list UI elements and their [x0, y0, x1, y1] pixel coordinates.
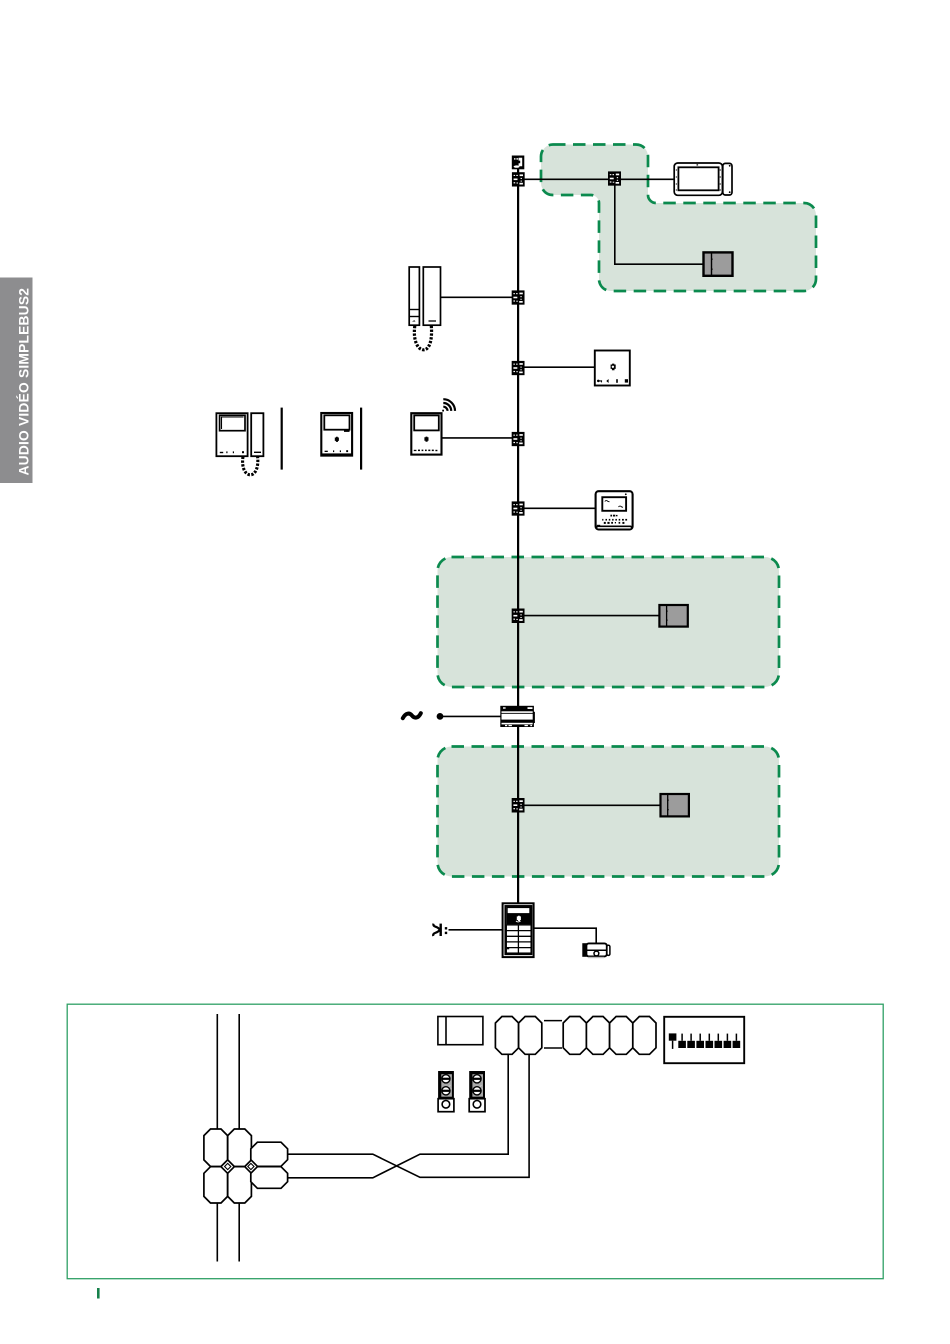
wire handset phone branch	[440, 296, 512, 298]
terminal strip break marks	[544, 1020, 562, 1022]
green zone 3	[438, 747, 780, 877]
bottom detail box frame	[67, 1004, 883, 1278]
AC mains symbol	[403, 713, 421, 718]
floor distributor F (porter switchboard)	[512, 501, 525, 516]
wire porter switchboard branch	[524, 507, 596, 509]
floor distributor B (in zone 1)	[608, 171, 621, 186]
floor distributor D (audio unit)	[512, 361, 525, 376]
wire PSU box 2 branch	[524, 615, 660, 617]
wifi waves	[443, 399, 455, 411]
power supply unit box 2 (zone 2)	[659, 605, 687, 627]
video monitor with handset (alternative 1)	[216, 413, 263, 475]
AC junction dot	[437, 713, 444, 720]
riser wire right	[238, 1014, 240, 1262]
wires	[440, 169, 704, 944]
entrance panel	[503, 903, 534, 957]
wire AC mains to power supply	[440, 715, 501, 717]
junction diamond 2	[248, 1163, 254, 1169]
riser wire left	[216, 1014, 218, 1262]
svg-text:AUDIO VIDÉO SIMPLEBUS2: AUDIO VIDÉO SIMPLEBUS2	[15, 288, 31, 476]
floor distributor E (wifi monitor)	[512, 432, 525, 447]
devices	[216, 156, 732, 959]
wide-screen monitor U1 (top right)	[674, 163, 732, 195]
terminal T6	[633, 1017, 656, 1055]
terminal T1	[495, 1017, 518, 1055]
handset door phone	[409, 267, 440, 350]
terminal branch lower	[251, 1167, 288, 1189]
sidebar tab AUDIO VIDEO SIMPLEBUS2	[0, 278, 33, 484]
line terminator module	[512, 156, 525, 170]
terminal T4	[586, 1017, 609, 1055]
green zone 2	[438, 557, 780, 687]
wire floor link to monitor (top)	[524, 178, 675, 180]
terminal L3 (riser, bottom-left)	[204, 1167, 228, 1203]
crossover wire lower	[287, 1055, 508, 1178]
wire from floor distributor down to PSU box 1	[615, 185, 704, 264]
separator bar 1	[281, 408, 283, 470]
wifi hands-free video monitor (alternative 3)	[411, 399, 455, 454]
porter switchboard	[596, 491, 633, 529]
wire entrance panel to camera	[534, 928, 597, 943]
hands-free video monitor (alternative 2)	[321, 413, 352, 456]
terminal L4 (riser, bottom-right)	[228, 1167, 252, 1203]
terminal branch upper	[251, 1142, 288, 1166]
floor distributor H (zone 3)	[512, 798, 525, 813]
wire PSU box 3 branch	[524, 804, 661, 806]
terminal L1 (riser, top-left)	[204, 1129, 228, 1167]
audio hands-free door phone	[595, 351, 630, 386]
separator bar 2	[360, 408, 362, 470]
terminal T5	[610, 1017, 633, 1055]
cctv camera	[582, 943, 610, 958]
terminal T2	[519, 1017, 542, 1055]
floor distributor A (on riser, top)	[512, 172, 525, 187]
terminal L2 (riser, top-right)	[228, 1129, 252, 1167]
green zone 1 (apartment 1, Z-shaped)	[438, 145, 817, 877]
power supply unit box 3 (zone 3)	[661, 794, 689, 816]
terminal T3	[563, 1017, 586, 1055]
jumper block 1	[438, 1071, 454, 1112]
floor distributor G (zone 2)	[512, 609, 525, 624]
wire terminator link	[517, 169, 519, 173]
wire lock release to entrance panel	[449, 929, 504, 931]
wire audio door phone branch	[524, 366, 595, 368]
system power supply (DIN rail)	[500, 706, 535, 727]
power supply unit box 1 (zone 1)	[704, 252, 733, 275]
wire wifi monitor branch	[441, 437, 512, 439]
dip switch block	[664, 1017, 744, 1063]
floor distributor C (handset phone)	[512, 290, 525, 305]
page marker tick	[97, 1288, 100, 1299]
electric lock release symbol	[433, 924, 447, 936]
relay module	[438, 1017, 483, 1045]
jumper block 2	[469, 1071, 485, 1112]
crossover wire upper	[287, 1055, 529, 1178]
junction diamond 1	[225, 1163, 231, 1169]
wire main riser bus	[517, 184, 519, 905]
